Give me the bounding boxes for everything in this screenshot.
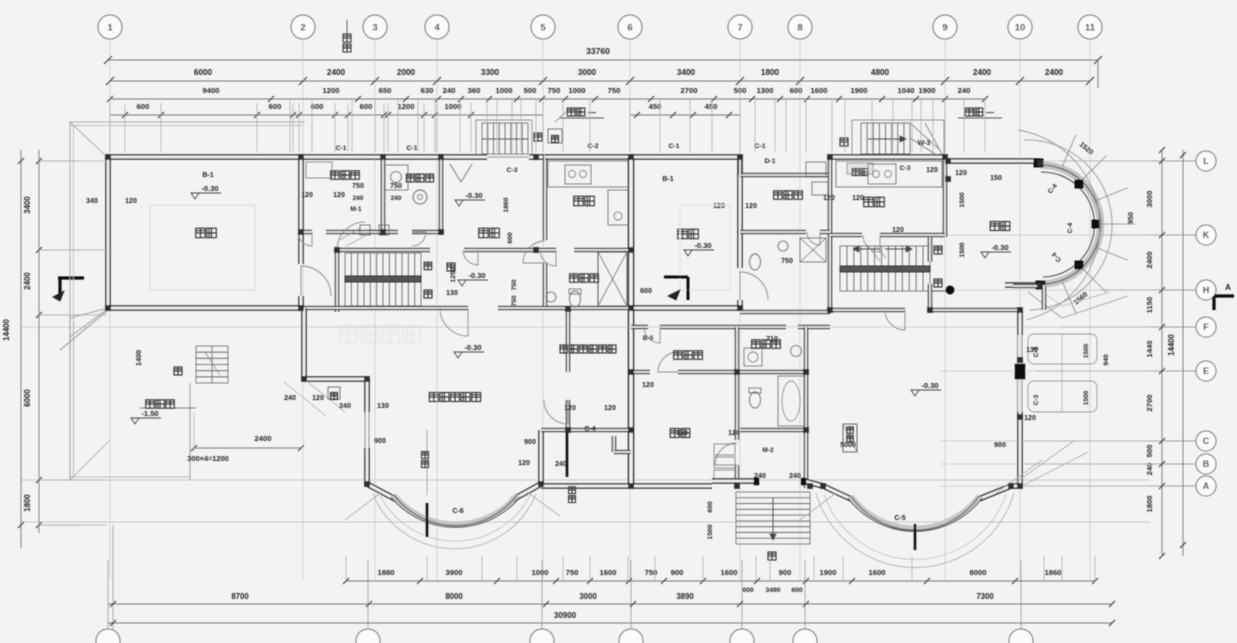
elevation living: [911, 390, 919, 396]
svg-text:B-1: B-1: [662, 176, 673, 183]
dim row grid spacing: [110, 80, 1090, 82]
svg-text:2400: 2400: [1145, 252, 1154, 269]
svg-text:120: 120: [676, 430, 688, 437]
room label laundry-2: [752, 340, 761, 349]
svg-text:150: 150: [990, 175, 1002, 182]
door to theater: [440, 308, 468, 336]
room label dining-2: [990, 222, 999, 231]
site line F grid long: [21, 326, 1196, 328]
svg-text:600: 600: [507, 232, 514, 244]
garage-1 parking bay faint outline: [150, 205, 255, 290]
svg-text:300×4=1200: 300×4=1200: [187, 454, 229, 463]
svg-text:120: 120: [564, 405, 576, 412]
party wall between units: [630, 157, 633, 488]
svg-text:6: 6: [627, 23, 632, 34]
bottom entry stair treads: [736, 492, 810, 544]
bay-2 outer terrace arc: [816, 493, 1014, 568]
svg-text:C: C: [1203, 436, 1210, 446]
svg-text:750: 750: [645, 568, 658, 577]
bedroom partition east: [736, 372, 739, 440]
garage-2 east wall stub: [739, 300, 742, 310]
svg-text:120: 120: [125, 198, 137, 205]
bottom wall study to bedroom: [541, 485, 631, 488]
svg-text:C-3: C-3: [900, 165, 911, 172]
laundry-1 washer: [413, 190, 427, 204]
svg-text:C-1: C-1: [669, 143, 680, 150]
bump-2 winder diagonals: [910, 123, 940, 150]
servant room closet: [306, 162, 332, 178]
svg-text:900: 900: [524, 439, 536, 446]
svg-text:500: 500: [1145, 445, 1154, 458]
grid bubble 3: [363, 15, 387, 39]
svg-text:750: 750: [566, 568, 579, 577]
south wall hall zone / garage bottoms: [304, 307, 468, 310]
grid bubble 4: [425, 15, 449, 39]
stacked label below study: [569, 487, 576, 494]
room label servant: [331, 171, 340, 180]
powder-1 basin: [546, 292, 556, 302]
svg-text:4: 4: [434, 23, 440, 34]
svg-text:1500: 1500: [1083, 390, 1090, 405]
dining-2 south wall to round bay: [1005, 284, 1043, 287]
kitchen-1 west wall upper: [544, 155, 547, 240]
door kitchen-1: [523, 241, 545, 263]
room label garage-1: [196, 228, 206, 238]
svg-text:120: 120: [823, 195, 835, 202]
svg-text:10: 10: [1015, 23, 1026, 34]
bay-2 terrace mid arc: [824, 494, 1006, 559]
svg-text:1500: 1500: [707, 524, 714, 539]
svg-text:3400: 3400: [677, 68, 696, 77]
kitchen-1 counter: [548, 161, 628, 187]
section marker A left: [58, 276, 84, 279]
svg-text:1900: 1900: [820, 568, 837, 577]
stair-2 winder lines: [868, 246, 880, 261]
grid bubble L: [1196, 151, 1216, 171]
bottom extension lines from building down to dims: [345, 556, 347, 581]
light structural grid verticals: [109, 40, 111, 580]
svg-text:C-3: C-3: [1033, 394, 1040, 405]
svg-text:1440: 1440: [1145, 341, 1154, 358]
svg-text:-1.50: -1.50: [141, 409, 158, 418]
svg-text:B-5: B-5: [643, 335, 654, 342]
svg-text:900: 900: [671, 568, 684, 577]
svg-text:2000: 2000: [397, 68, 416, 77]
door powder room unit-1: [540, 250, 556, 266]
dim row detail 1: [110, 98, 985, 100]
dim row detail 2: [110, 114, 543, 116]
bay-2 center mullion: [914, 524, 917, 550]
svg-text:900: 900: [994, 442, 1006, 449]
svg-text:1860: 1860: [503, 197, 510, 212]
svg-text:120: 120: [713, 203, 725, 210]
svg-text:240: 240: [958, 86, 971, 95]
grid bubble 7: [728, 15, 752, 39]
room label worker room: [774, 191, 783, 200]
svg-text:1400: 1400: [134, 350, 143, 366]
svg-text:600: 600: [137, 102, 150, 111]
stair-2 middle rail: [840, 266, 930, 272]
svg-text:C-1: C-1: [407, 145, 418, 152]
svg-text:2400: 2400: [23, 272, 32, 290]
worker bath shower: [800, 238, 826, 262]
svg-text:8000: 8000: [445, 592, 463, 601]
svg-text:8700: 8700: [231, 592, 249, 601]
porch outline: [69, 318, 71, 480]
duct label small: [847, 427, 854, 434]
grid bubble 6: [618, 15, 642, 39]
hall small shang glyph: [424, 262, 432, 270]
laundry-2 east wall: [805, 327, 808, 488]
svg-text:1600: 1600: [811, 86, 828, 95]
balcony mid line: [1061, 334, 1063, 412]
svg-text:240: 240: [339, 403, 351, 410]
svg-text:600: 600: [707, 501, 714, 513]
kitchen-1 south wall: [545, 249, 556, 252]
svg-text:1200: 1200: [323, 86, 340, 95]
svg-text:130: 130: [446, 290, 458, 297]
grid bubble 5: [531, 15, 555, 39]
svg-text:1800: 1800: [23, 494, 32, 512]
bay-2 window arc outer: [848, 498, 982, 531]
svg-text:B-1: B-1: [202, 172, 213, 179]
svg-text:600: 600: [311, 102, 324, 111]
svg-text:B: B: [1203, 459, 1210, 469]
svg-text:D-1: D-1: [765, 158, 776, 165]
bedroom-2 wardrobe: [714, 444, 735, 455]
roof chevron right of dining bay: [1028, 292, 1062, 318]
svg-text:450: 450: [649, 102, 662, 111]
svg-text:240: 240: [443, 86, 456, 95]
north wall living zone: [830, 309, 905, 312]
bay-1 terrace mid arc: [380, 495, 530, 541]
svg-text:1900: 1900: [851, 86, 868, 95]
svg-text:6000: 6000: [194, 68, 213, 77]
svg-text:120: 120: [642, 382, 654, 389]
porch diagonal splays: [284, 382, 326, 416]
svg-text:C-4: C-4: [1067, 222, 1074, 233]
svg-text:1600: 1600: [869, 568, 886, 577]
balcony bay rounded rect lower: [1028, 381, 1097, 412]
worker/kitchen partition: [829, 157, 832, 310]
door laundry-1: [412, 232, 426, 246]
svg-text:-0.30: -0.30: [694, 241, 711, 250]
porch label: [146, 400, 155, 409]
beam callout left: [567, 108, 575, 116]
svg-text:1600: 1600: [721, 568, 738, 577]
svg-text:600: 600: [360, 102, 373, 111]
grid bubble H: [1196, 280, 1216, 300]
entry door opening jambs: [754, 478, 759, 485]
theater east jog: [541, 429, 568, 432]
door hall north: [463, 250, 478, 265]
svg-text:14400: 14400: [1167, 333, 1176, 355]
right extension lines: [1060, 160, 1160, 162]
svg-text:630: 630: [421, 86, 434, 95]
worker room south wall: [740, 231, 806, 234]
grid bubble 2: [291, 15, 315, 39]
entry door V mark: [450, 164, 461, 182]
light structural grid horizontals: [940, 160, 1196, 162]
svg-text:600: 600: [791, 587, 803, 594]
svg-text:4800: 4800: [871, 68, 890, 77]
elevation garage-2: [684, 250, 692, 256]
bay-2 left splay stub: [823, 486, 851, 499]
svg-text:1860: 1860: [1045, 568, 1062, 577]
svg-text:1600: 1600: [600, 568, 617, 577]
grid bubble A: [1196, 476, 1216, 496]
svg-text:1000: 1000: [532, 568, 549, 577]
partition servant/laundry: [382, 159, 385, 231]
room label laundry-1: [406, 174, 414, 182]
svg-text:900: 900: [374, 438, 386, 445]
room label bedroom-2: [670, 429, 679, 438]
grid bubble B: [1196, 454, 1216, 474]
grid bubble F: [1196, 317, 1216, 337]
servant laundry south wall: [301, 231, 312, 234]
svg-text:1200: 1200: [398, 102, 415, 111]
svg-text:240: 240: [754, 473, 766, 480]
svg-text:2700: 2700: [1145, 395, 1154, 412]
svg-text:M-1: M-1: [350, 206, 362, 213]
site line lower terrace: [21, 479, 1150, 481]
svg-text:9400: 9400: [203, 86, 220, 95]
right dim inner line: [1161, 150, 1163, 556]
svg-text:900: 900: [779, 568, 792, 577]
svg-text:11: 11: [1085, 23, 1096, 34]
study SE wall jog: [613, 436, 616, 452]
canopy lower diagonal: [70, 309, 107, 337]
svg-text:120: 120: [312, 395, 324, 402]
svg-text:750: 750: [608, 86, 621, 95]
theater west window: [364, 412, 366, 448]
duct shaft unit-2: [843, 424, 857, 452]
garage-2 east wall upper: [739, 155, 742, 268]
stair upper bump unit-2 treads: [861, 123, 910, 154]
bay-1 elevator shaft stacked label: [422, 452, 429, 459]
svg-text:3000: 3000: [579, 592, 597, 601]
grid bubble 1: [98, 15, 122, 39]
svg-text:6000: 6000: [23, 389, 32, 407]
svg-text:120: 120: [301, 192, 313, 199]
bay-1 section line thin: [426, 430, 428, 495]
svg-text:120: 120: [518, 460, 530, 467]
svg-text:7300: 7300: [976, 592, 994, 601]
kitchen-1 side counter: [608, 190, 628, 225]
svg-text:600: 600: [269, 102, 282, 111]
svg-text:30900: 30900: [554, 611, 577, 620]
bay-1 window arc inner: [394, 495, 517, 526]
stair-1 up label: [447, 263, 455, 271]
svg-text:450: 450: [705, 102, 718, 111]
door garage-2 to hall: [740, 272, 768, 300]
bottom stair shang label: [768, 552, 776, 560]
svg-text:3000: 3000: [578, 68, 597, 77]
stair-1 main treads: [345, 253, 421, 306]
svg-text:A: A: [1225, 283, 1231, 292]
garage-1 right wall lower stub: [300, 296, 303, 310]
kitchen-2 east wall: [944, 157, 947, 237]
junction near dining west: [945, 176, 950, 181]
right dim outer line: [1182, 150, 1184, 556]
svg-text:1500: 1500: [959, 242, 966, 257]
svg-text:3890: 3890: [676, 592, 694, 601]
svg-text:9: 9: [942, 23, 947, 34]
svg-text:C-5: C-5: [894, 515, 905, 522]
garage-2 top wall: [631, 156, 740, 159]
svg-text:-0.30: -0.30: [464, 343, 481, 352]
corridor wall unit-2: [929, 237, 932, 262]
svg-text:2400: 2400: [973, 68, 992, 77]
svg-text:120: 120: [604, 405, 616, 412]
svg-text:2: 2: [300, 23, 305, 34]
stair-2 landing dot: [946, 286, 954, 294]
svg-text:1300: 1300: [757, 86, 774, 95]
elevation garage-1: [191, 193, 199, 199]
kitchen-2 fridge: [806, 162, 826, 177]
faint watermark: [340, 326, 420, 343]
svg-text:600: 600: [640, 288, 652, 295]
kitchen-2 counter: [836, 161, 942, 187]
stair bump unit-1 mid line: [482, 138, 528, 140]
theater west jog wall: [303, 378, 367, 381]
left extension lines: [40, 160, 107, 162]
grid bubble 10: [1008, 15, 1032, 39]
svg-text:710: 710: [766, 336, 778, 343]
svg-text:3300: 3300: [481, 68, 500, 77]
round bay radial lines: [1062, 135, 1076, 167]
svg-text:120: 120: [1024, 415, 1036, 422]
laundry-1 sink counter: [385, 165, 408, 190]
svg-text:120: 120: [955, 170, 967, 177]
upper stair bump unit-1 outline: [476, 120, 532, 157]
bay-2 window arc inner: [851, 496, 979, 530]
svg-text:2400: 2400: [327, 68, 346, 77]
kitchen-1 top wall: [545, 156, 630, 159]
svg-text:650: 650: [379, 86, 392, 95]
door living: [885, 310, 905, 330]
bath-2 toilet: [750, 392, 761, 408]
svg-text:—: —: [986, 108, 994, 117]
svg-text:1880: 1880: [378, 568, 395, 577]
round bay outer arc 1: [1024, 140, 1112, 310]
bay-1 window band: [394, 495, 517, 524]
bottom wall right corner: [1011, 485, 1022, 488]
elevation theater: [454, 352, 462, 358]
left riser to corner bubble: [112, 525, 114, 629]
section cut bar theater east: [566, 427, 569, 477]
svg-text:240: 240: [353, 195, 364, 202]
svg-text:1250: 1250: [450, 267, 457, 282]
svg-text:L: L: [1203, 156, 1209, 166]
entry top wall unit-1: [441, 156, 487, 159]
svg-text:2700: 2700: [681, 86, 698, 95]
svg-text:750: 750: [548, 86, 561, 95]
svg-text:-0.30: -0.30: [468, 271, 485, 280]
svg-text:C-1: C-1: [755, 143, 766, 150]
svg-text:2400: 2400: [1045, 68, 1064, 77]
svg-text:120: 120: [852, 195, 864, 202]
stair-1 middle rail: [345, 276, 421, 282]
svg-text:1500: 1500: [1083, 343, 1090, 358]
svg-text:120: 120: [333, 192, 345, 199]
svg-text:-0.30: -0.30: [201, 184, 218, 193]
svg-text:500: 500: [734, 86, 747, 95]
kitchen-2 hood boxed tag: [847, 163, 873, 174]
study south wall: [568, 429, 631, 432]
theater west wall lower: [366, 379, 369, 412]
svg-text:H: H: [1203, 285, 1210, 295]
svg-text:750: 750: [390, 183, 402, 190]
svg-text:33760: 33760: [586, 46, 610, 56]
beam callout right: [965, 108, 973, 116]
stair-1 winder: [337, 222, 365, 250]
kitchen-1 west wall lower: [544, 263, 547, 310]
svg-text:F: F: [1203, 322, 1209, 332]
stair-2 main treads: [840, 246, 930, 291]
svg-text:120: 120: [728, 430, 740, 437]
gym laundry south wall: [631, 371, 650, 374]
bath-2 south wall: [740, 429, 806, 432]
living east wall column: [1015, 364, 1025, 379]
svg-text:8000: 8000: [970, 568, 987, 577]
stair bump unit-2 label shang: [840, 138, 848, 146]
bay-2 right splay stub: [979, 486, 1011, 499]
svg-text:A: A: [1203, 481, 1210, 491]
top wall servant and laundry rooms: [301, 156, 441, 159]
door bedroom-2 zone: [658, 352, 678, 372]
grid bubble C: [1196, 431, 1216, 451]
svg-text:3: 3: [372, 23, 377, 34]
worker bath toilet: [750, 254, 761, 270]
laundry-1 east wall: [440, 157, 443, 233]
svg-text:940: 940: [1103, 354, 1110, 366]
door garage-1 to hall: [301, 266, 331, 296]
bath-2 tub: [778, 376, 804, 426]
bottom dim row 1: [346, 580, 1095, 582]
boxed tag next to bump-1: [548, 129, 562, 143]
svg-text:-0.30: -0.30: [991, 243, 1008, 252]
svg-text:W-3: W-3: [918, 140, 931, 147]
left dim outer line: [20, 150, 22, 548]
bottom dim row 3 total: [108, 622, 1112, 624]
grid bubble 8: [788, 15, 812, 39]
bay-1 right splay stub: [512, 484, 541, 500]
door kitchen-2: [863, 235, 880, 252]
stair-1 north wall: [337, 249, 430, 252]
section marker A right: [1214, 294, 1234, 297]
svg-text:600: 600: [742, 587, 754, 594]
stair bump unit-1 label shang: [534, 133, 542, 141]
upper stair bump unit-2 outline: [852, 120, 944, 157]
dining-2 north wall to round bay: [948, 160, 1040, 163]
grid bubble 9: [933, 15, 957, 39]
bay-1 outer terrace arc: [373, 494, 536, 549]
svg-text:130: 130: [377, 403, 389, 410]
svg-text:120: 120: [926, 167, 938, 174]
svg-text:750: 750: [352, 183, 364, 190]
bay-2 window band: [851, 496, 979, 528]
kitchen-2 south wall: [830, 234, 862, 237]
svg-text:360: 360: [468, 86, 481, 95]
svg-text:5000: 5000: [840, 442, 856, 449]
door study: [544, 400, 568, 424]
svg-text:1000: 1000: [569, 86, 586, 95]
balcony bay rounded rect upper: [1028, 334, 1097, 364]
canopy outline above garage-1: [70, 121, 305, 123]
elevation dining-2: [981, 252, 989, 258]
room label kitchen-1: [574, 196, 584, 206]
